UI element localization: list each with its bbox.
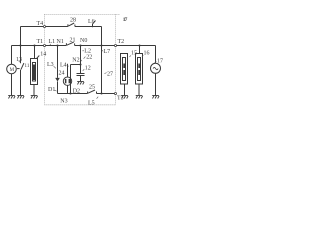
svg-text:16: 16 bbox=[144, 51, 150, 57]
svg-text:M: M bbox=[10, 68, 15, 73]
svg-text:N2: N2 bbox=[72, 58, 79, 64]
svg-text:N1: N1 bbox=[57, 39, 64, 45]
svg-text:T2: T2 bbox=[118, 39, 125, 45]
svg-text:22: 22 bbox=[86, 55, 92, 61]
svg-text:27: 27 bbox=[107, 72, 113, 78]
svg-text:15: 15 bbox=[131, 51, 137, 57]
svg-text:17: 17 bbox=[157, 58, 163, 64]
svg-text:D2: D2 bbox=[73, 89, 80, 95]
svg-text:11: 11 bbox=[25, 64, 30, 69]
svg-text:D1: D1 bbox=[48, 87, 55, 93]
svg-text:21: 21 bbox=[70, 38, 76, 44]
svg-text:L7: L7 bbox=[104, 49, 111, 55]
svg-text:N3: N3 bbox=[60, 99, 67, 105]
svg-text:T1: T1 bbox=[37, 39, 44, 45]
svg-text:L6: L6 bbox=[88, 19, 95, 25]
svg-text:14: 14 bbox=[40, 52, 46, 58]
svg-text:L1: L1 bbox=[49, 39, 56, 45]
svg-text:25: 25 bbox=[89, 84, 95, 90]
svg-text:N0: N0 bbox=[80, 38, 87, 44]
svg-text:T4: T4 bbox=[37, 21, 44, 27]
svg-text:12: 12 bbox=[85, 66, 91, 72]
svg-text:L4: L4 bbox=[60, 62, 67, 68]
svg-text:T3: T3 bbox=[117, 96, 124, 102]
svg-text:28: 28 bbox=[70, 18, 76, 24]
svg-text:24: 24 bbox=[59, 71, 65, 77]
svg-text:L3: L3 bbox=[47, 62, 54, 68]
svg-text:L5: L5 bbox=[88, 100, 95, 106]
svg-text:13: 13 bbox=[16, 57, 22, 63]
